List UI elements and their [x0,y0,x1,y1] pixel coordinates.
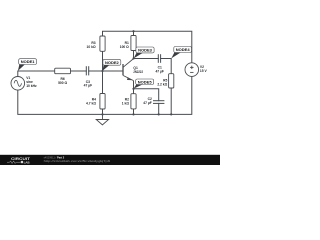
svg-text:NODE3: NODE3 [138,48,153,53]
svg-text:4.7 kΩ: 4.7 kΩ [86,102,96,106]
wire C1 to node4 corner down to R5 [161,59,172,74]
footer logo square + LAB [21,161,23,163]
node NODE4 label [171,47,191,59]
svg-text:http://circuitlab.com/c/5m4wdy: http://circuitlab.com/c/5m4wdygkj7p6 [44,159,111,163]
footer bar [0,155,220,165]
svg-text:2N2222: 2N2222 [133,70,143,74]
wire R1 top lead [133,31,135,35]
svg-text:NODE2: NODE2 [105,60,120,65]
svg-text:10 kHz: 10 kHz [26,84,37,88]
transistor Q1 [123,59,134,89]
node NODE5 label [134,79,154,89]
wire R4 bottom to bottom rail [102,109,104,114]
node NODE1 label [18,59,37,71]
wire C3 to Q1 base [89,70,123,72]
voltage source V1 [11,77,25,91]
ground [96,114,108,125]
wire bottom rail (ground net) [18,76,192,114]
svg-text:2.2 kΩ: 2.2 kΩ [157,83,167,87]
wire emitter node to C2 top [134,89,159,101]
wire V1 top to R6 [18,71,55,77]
resistor R4 [100,94,105,110]
emitter arrow head [127,77,132,80]
svg-text:47 µF: 47 µF [143,101,152,105]
voltage source V2 [185,63,199,77]
capacitor C2 [153,101,164,104]
svg-text:47 µF: 47 µF [155,70,164,74]
svg-text:NODE4: NODE4 [176,47,191,52]
resistor R5 [169,74,174,88]
wire emitter node to R2 top [133,89,135,94]
resistor R6 [55,68,71,74]
svg-text:1 kΩ: 1 kΩ [122,101,130,105]
junction node dots [101,30,172,115]
node NODE3 label [134,47,154,58]
wire collector node to C1 [134,58,159,60]
node NODE2 label [103,59,121,70]
wire R1 bottom to collector node [133,51,135,59]
resistor R3 [100,36,105,51]
svg-text:NODE5: NODE5 [138,79,153,84]
wire R2 bottom to bottom rail [133,109,135,115]
svg-text:10 kΩ: 10 kΩ [87,45,96,49]
capacitor C3 [86,66,88,75]
wire R5 bottom to bottom rail [170,88,172,114]
svg-text:NODE1: NODE1 [21,59,36,64]
capacitor C1 [158,54,160,63]
wire top rail [103,31,192,63]
wire C2 bottom to bottom rail [158,103,160,114]
wire R3 bottom through node2 to R4 top [102,51,104,93]
svg-text:47 µF: 47 µF [84,84,93,88]
svg-text:15 V: 15 V [200,69,208,73]
svg-text:LAB: LAB [24,160,30,164]
resistor R2 [131,94,136,109]
svg-text:100 Ω: 100 Ω [120,45,129,49]
footer logo waveform [7,161,20,164]
svg-text:500 Ω: 500 Ω [58,81,67,85]
wire R6 to C3 [71,70,87,72]
resistor R1 [131,36,136,51]
